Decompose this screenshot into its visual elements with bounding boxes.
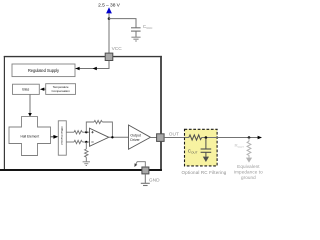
resistor (filter series) [189,135,202,140]
wire OUT pin to filter [164,137,184,139]
svg-text:Hall Element: Hall Element [20,134,39,138]
wire internal to GND pin [136,162,145,167]
feedback loop wire [86,122,94,132]
wire bias to hall element [29,94,31,113]
wire VCC pin to regulated supply [76,61,110,69]
ground (below GND pin) [141,183,150,185]
wire offset cancel to R bottom [66,141,74,143]
capacitor COUT [205,138,207,149]
wire op-amp output [109,136,129,138]
arrowhead into bias [40,88,44,91]
arrowhead mid supply line [93,67,97,71]
feedback wire down to output node [102,122,112,137]
resistor (feedback) [94,120,102,123]
resistor (top input) [74,131,82,134]
node top input [85,131,87,133]
svg-text:Equivalent: Equivalent [237,164,260,169]
node filter [205,136,208,139]
wire bottom input to resistor to ground [85,142,87,149]
node bottom input [85,141,87,143]
wire to bypass capacitor [109,19,136,28]
wire to op-amp + input [82,131,89,133]
output driver amp [129,125,151,149]
capacitor CVCC [131,28,141,37]
svg-text:Driver: Driver [130,138,140,142]
op-amp U1 [90,128,109,146]
svg-text:OUT: OUT [169,131,179,137]
wire GND pin to ground [144,174,146,183]
wire to op-amp - input [82,141,89,143]
pin VCC [105,53,113,60]
wire into filter [185,137,189,139]
ground (below resistor) [83,162,90,166]
svg-text:impedance to: impedance to [234,170,263,175]
arrowhead hall to offset cancel [51,136,54,138]
hall element (cross) [9,117,51,156]
arrowhead into hall element [28,113,32,117]
svg-text:Compensation: Compensation [52,89,71,93]
IC body outline [0,56,162,171]
svg-text:2.5 – 38 V: 2.5 – 38 V [98,3,121,9]
svg-text:Optional RC Filtering: Optional RC Filtering [182,170,227,175]
pin OUT [157,134,165,142]
arrowhead signal out [258,136,262,140]
wire filter to right [202,137,217,139]
node load [248,136,251,139]
svg-text:VCC: VCC [112,46,123,52]
wire filter to load [217,137,259,139]
block Temperature Compensation [46,84,76,95]
resistor REQ (equivalent load, gray) [248,138,250,142]
resistor (bottom input) [74,140,82,143]
node supply junction [108,17,111,20]
wire offset cancel to R top [66,131,74,133]
block Regulated Supply [12,64,75,77]
block Bias [13,84,40,94]
block offset cancel (vertical) [58,121,66,155]
wire driver to OUT pin [151,137,158,139]
ground arrow (below COUT) [203,157,209,162]
resistor (to ground, vertical) [85,149,88,157]
wire temp comp to bias [44,88,46,90]
supply arrow (blue, pointing up) [106,7,112,13]
ground arrow (equivalent load) [246,158,252,163]
node output/feedback [111,136,113,138]
ground (below CVCC) [131,37,140,41]
svg-text:Offset Cancel: Offset Cancel [60,127,64,145]
svg-text:GND: GND [149,178,160,184]
arrowhead into regulated supply [75,67,79,71]
arrowhead to internal circuit [134,163,137,167]
optional RC filter box [185,129,218,166]
svg-text:ground: ground [241,175,256,180]
pin GND [142,167,149,174]
wire VCC supply vertical [108,13,110,53]
caption equivalent impedance [234,164,263,180]
svg-text:Bias: Bias [22,87,29,91]
svg-text:Regulated Supply: Regulated Supply [28,68,60,73]
